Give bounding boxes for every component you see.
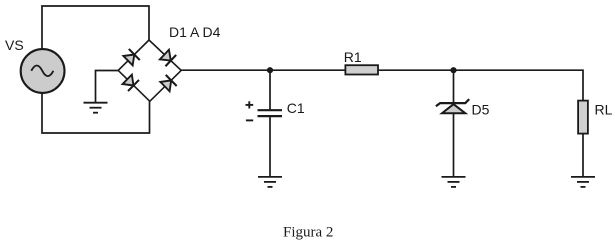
svg-text:D5: D5 [472,102,490,118]
svg-text:VS: VS [5,37,24,53]
svg-text:RL: RL [595,102,613,118]
svg-text:D1 A D4: D1 A D4 [169,24,221,40]
svg-text:Figura 2: Figura 2 [283,225,333,241]
svg-text:C1: C1 [287,100,305,116]
svg-text:R1: R1 [344,49,362,65]
